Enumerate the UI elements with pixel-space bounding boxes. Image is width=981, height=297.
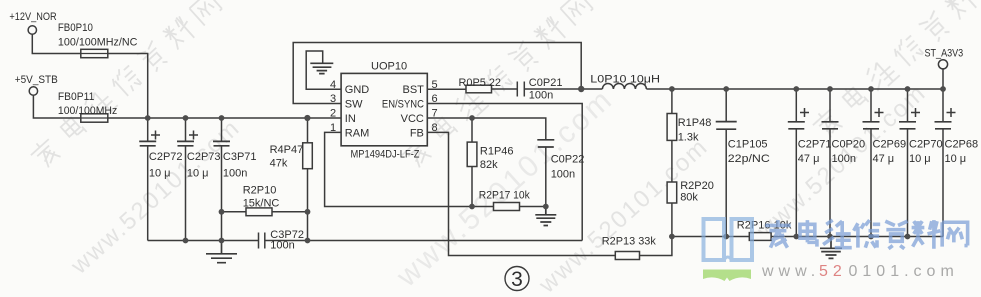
svg-text:IN: IN — [345, 113, 356, 125]
svg-text:5: 5 — [432, 79, 438, 91]
svg-text:80k: 80k — [680, 192, 698, 204]
svg-text:SW: SW — [345, 98, 363, 110]
svg-text:10 μ: 10 μ — [149, 168, 171, 180]
svg-text:R1P46: R1P46 — [480, 146, 514, 158]
svg-text:10 μ: 10 μ — [187, 168, 209, 180]
svg-text:C2P68: C2P68 — [945, 139, 979, 151]
svg-text:7: 7 — [432, 108, 438, 120]
svg-text:C2P71: C2P71 — [798, 139, 832, 151]
svg-text:C2P69: C2P69 — [873, 139, 907, 151]
svg-text:R1P48: R1P48 — [678, 117, 712, 129]
svg-text:R4P47: R4P47 — [270, 144, 304, 156]
svg-text:C0P21: C0P21 — [529, 77, 563, 89]
svg-text:www.: www. — [761, 263, 820, 280]
svg-text:ST_A3V3: ST_A3V3 — [925, 48, 964, 60]
svg-text:3: 3 — [511, 268, 523, 291]
svg-text:15k/NC: 15k/NC — [243, 198, 280, 210]
svg-text:52: 52 — [819, 263, 847, 280]
svg-text:EN/SYNC: EN/SYNC — [382, 98, 424, 110]
svg-text:L0P10 10μH: L0P10 10μH — [590, 74, 660, 86]
svg-text:R2P13 33k: R2P13 33k — [602, 236, 656, 248]
svg-text:R2P10: R2P10 — [243, 185, 277, 197]
svg-text:3: 3 — [330, 93, 336, 105]
svg-text:FB0P10: FB0P10 — [58, 22, 93, 34]
svg-text:1: 1 — [330, 122, 336, 134]
svg-text:8: 8 — [432, 122, 438, 134]
svg-text:C3P71: C3P71 — [223, 151, 257, 163]
svg-text:100n: 100n — [551, 169, 575, 181]
svg-text:0101.com: 0101.com — [849, 263, 959, 280]
svg-text:C2P73: C2P73 — [187, 151, 221, 163]
svg-text:C1P105: C1P105 — [728, 139, 768, 151]
svg-text:6: 6 — [432, 93, 438, 105]
svg-text:22p/NC: 22p/NC — [728, 153, 770, 165]
svg-text:100n: 100n — [270, 240, 294, 252]
svg-text:+5V_STB: +5V_STB — [15, 74, 58, 86]
svg-text:FB0P11: FB0P11 — [58, 91, 94, 103]
svg-text:R2P20: R2P20 — [680, 180, 714, 192]
svg-text:100n: 100n — [529, 90, 553, 102]
svg-text:BST: BST — [402, 84, 424, 96]
svg-text:C2P72: C2P72 — [149, 151, 183, 163]
svg-text:100n: 100n — [832, 153, 856, 165]
svg-text:FB: FB — [410, 127, 424, 139]
svg-text:1.3k: 1.3k — [678, 132, 699, 144]
svg-text:82k: 82k — [480, 159, 498, 171]
svg-text:C0P22: C0P22 — [551, 154, 585, 166]
svg-text:MP1494DJ-LF-Z: MP1494DJ-LF-Z — [351, 149, 420, 161]
svg-text:C0P20: C0P20 — [832, 139, 866, 151]
svg-text:R0P5 22: R0P5 22 — [459, 77, 502, 89]
svg-text:100/100MHz/NC: 100/100MHz/NC — [58, 36, 138, 48]
svg-text:47 μ: 47 μ — [798, 153, 820, 165]
svg-text:10 μ: 10 μ — [945, 153, 967, 165]
svg-text:2: 2 — [330, 108, 336, 120]
svg-text:10 μ: 10 μ — [909, 153, 931, 165]
svg-text:47k: 47k — [270, 158, 288, 170]
svg-text:RAM: RAM — [345, 127, 369, 139]
svg-text:100n: 100n — [223, 168, 247, 180]
svg-text:+12V_NOR: +12V_NOR — [9, 11, 56, 23]
svg-text:GND: GND — [345, 84, 370, 96]
svg-text:VCC: VCC — [401, 113, 424, 125]
svg-text:47 μ: 47 μ — [873, 153, 895, 165]
svg-text:UOP10: UOP10 — [371, 61, 407, 73]
svg-text:R2P17 10k: R2P17 10k — [479, 190, 530, 202]
svg-text:4: 4 — [330, 79, 336, 91]
svg-text:100/100MHz: 100/100MHz — [58, 105, 117, 117]
svg-text:C2P70: C2P70 — [909, 139, 943, 151]
